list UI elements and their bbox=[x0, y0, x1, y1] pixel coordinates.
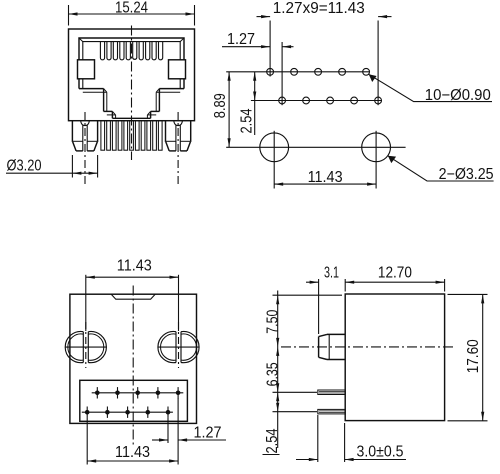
footprint: right big hole vertical centerline bbox=[375, 131, 377, 189]
svg-text:12.70: 12.70 bbox=[378, 265, 412, 282]
footprint: extension line through first bottom hole bbox=[281, 42, 283, 105]
svg-text:1.27x9=11.43: 1.27x9=11.43 bbox=[273, 0, 365, 17]
svg-text:1.27: 1.27 bbox=[227, 31, 255, 48]
dimension 7.50 text bbox=[265, 309, 282, 333]
dimension 15.24 text bbox=[115, 0, 148, 17]
dimension 3.1 extension lines bbox=[319, 279, 346, 334]
dimension 12.70 text bbox=[378, 265, 412, 282]
dimension 3.0+-0.5 extension lines bbox=[318, 415, 345, 462]
dimension 11.43 bottom extension line (bottom view) bbox=[86, 418, 88, 465]
front view: jack opening outer contour bbox=[79, 38, 184, 89]
dimension 1.27 text (bottom view) bbox=[194, 425, 222, 442]
front view: right mounting post bbox=[166, 121, 191, 151]
dimension diam 3.20 line bbox=[6, 172, 98, 175]
bottom view: right mounting post bbox=[158, 332, 199, 363]
front view: body outline bbox=[69, 29, 195, 121]
footprint: top row pin holes 10-d0.90 bbox=[267, 68, 370, 75]
dimension 17.60 extension lines bbox=[448, 294, 488, 420]
dimension 1.27 text (footprint) bbox=[227, 31, 255, 48]
footprint: top row centerline bbox=[226, 71, 369, 73]
dimension 15.24 extension lines bbox=[69, 5, 195, 26]
front view: left post centerline bbox=[84, 112, 86, 186]
side view chain dimension line 7.50 6.35 2.54 bbox=[276, 291, 279, 449]
dimension 1.27 extension lines (bottom view) bbox=[168, 398, 178, 465]
footprint: bottom row centerline bbox=[251, 100, 382, 102]
bottom view: top pin row line bbox=[92, 392, 184, 394]
dimension 1.27 line (bottom view) bbox=[152, 438, 226, 441]
footprint: left mounting hole 2-d3.25 bbox=[260, 133, 289, 162]
dimension 8.89 line bbox=[228, 72, 231, 148]
footprint: left big hole vertical centerline bbox=[273, 131, 275, 189]
side view: body outline bbox=[345, 294, 444, 421]
dimension 11.43 top text (bottom view) bbox=[117, 258, 152, 275]
front view: vertical centerline bbox=[131, 26, 133, 161]
bottom view: left post horizontal centerline bbox=[65, 346, 107, 348]
dimension 17.60 line bbox=[481, 294, 484, 420]
bottom view: body outline bbox=[70, 294, 197, 423]
dimension 11.43 top extension lines (bottom view) bbox=[86, 275, 179, 331]
svg-text:6.35: 6.35 bbox=[265, 362, 282, 386]
dimension 1.27x9=11.43 text bbox=[273, 0, 365, 17]
dimension 1.27 line (footprint) bbox=[222, 45, 294, 48]
dimension 12.70 extension line bbox=[444, 279, 446, 292]
dimension 2.54 line (footprint) bbox=[253, 72, 256, 135]
bottom view: bottom row pins bbox=[85, 407, 170, 418]
front view: jack opening inner contour bbox=[79, 38, 184, 89]
front view: contact pin comb bbox=[101, 121, 162, 151]
dimension 12.70 line bbox=[345, 281, 444, 284]
dimension 17.60 text bbox=[465, 339, 482, 373]
footprint: extension line through last bottom hole bbox=[377, 21, 379, 106]
dimension 2.54 text (footprint) bbox=[239, 108, 256, 133]
side view: mounting post profile bbox=[319, 334, 346, 359]
svg-text:11.43: 11.43 bbox=[308, 169, 343, 186]
front view: right latch window bbox=[169, 60, 186, 79]
dimension 11.43 top line (bottom view) bbox=[86, 276, 179, 279]
dimension 15.24 line bbox=[69, 12, 195, 15]
svg-text:10−Ø0.90: 10−Ø0.90 bbox=[425, 87, 491, 104]
dimension diam 3.20 text bbox=[7, 157, 42, 174]
svg-text:1.27: 1.27 bbox=[194, 425, 222, 442]
svg-text:2.54: 2.54 bbox=[264, 428, 281, 453]
footprint: right mounting hole 2-d3.25 bbox=[362, 133, 391, 162]
svg-text:15.24: 15.24 bbox=[115, 0, 148, 17]
svg-text:3.1: 3.1 bbox=[324, 265, 339, 282]
svg-text:17.60: 17.60 bbox=[465, 339, 482, 373]
dimension 3.1 text bbox=[324, 265, 339, 282]
dimension 1.27x9=11.43 line bbox=[257, 15, 392, 18]
bottom view: bottom pin row line bbox=[82, 411, 173, 413]
dimension diam 3.20 extension lines bbox=[72, 155, 97, 178]
side view: lower solder pin bbox=[318, 409, 345, 414]
footprint: extension line through first top hole bbox=[269, 21, 271, 77]
dimension 11.43 line (footprint) bbox=[274, 183, 376, 186]
svg-text:2.54: 2.54 bbox=[239, 108, 256, 133]
svg-text:2−Ø3.25: 2−Ø3.25 bbox=[439, 166, 494, 183]
side view chain dimension extension lines bbox=[273, 295, 343, 412]
svg-text:11.43: 11.43 bbox=[115, 444, 150, 461]
leader 10-d0.90 bbox=[369, 74, 492, 101]
bottom view: main vertical centerline bbox=[132, 286, 134, 448]
front view: left latch window bbox=[78, 60, 95, 79]
bottom view: right post horizontal centerline bbox=[158, 346, 200, 348]
label 2-d3.25 text bbox=[439, 166, 494, 183]
bottom view: right post vertical centerline bbox=[178, 322, 180, 368]
dimension 3.1 line bbox=[306, 281, 319, 284]
front view: contact comb slots bbox=[100, 42, 162, 60]
svg-text:11.43: 11.43 bbox=[117, 258, 152, 275]
svg-text:Ø3.20: Ø3.20 bbox=[7, 157, 42, 174]
front view: opening floor bbox=[112, 117, 150, 119]
front view: stepped opening bottom left bbox=[79, 89, 116, 119]
svg-text:7.50: 7.50 bbox=[265, 309, 282, 333]
front view: left mounting post bbox=[72, 121, 97, 151]
leader 2-d3.25 bbox=[388, 156, 494, 181]
bottom view: left mounting post bbox=[65, 332, 106, 363]
label 10-d0.90 text bbox=[425, 87, 491, 104]
footprint: bottom row pin holes bbox=[279, 97, 382, 104]
side view: horizontal centerline bbox=[281, 346, 455, 348]
dimension 11.43 bottom line (bottom view) bbox=[87, 459, 178, 462]
front view: stepped opening bottom right bbox=[147, 89, 184, 119]
bottom view: left post vertical centerline bbox=[85, 322, 87, 368]
dimension 3.0+-0.5 line bbox=[296, 458, 406, 461]
dimension 8.89 text bbox=[212, 93, 229, 118]
dimension 2.54 text (side view) bbox=[263, 428, 282, 454]
bottom view: top row pins bbox=[95, 387, 180, 398]
bottom view: pin field rectangle bbox=[80, 380, 188, 421]
dimension 6.35 text bbox=[265, 362, 282, 386]
svg-text:3.0±0.5: 3.0±0.5 bbox=[357, 444, 404, 461]
dimension 11.43 bottom text (bottom view) bbox=[115, 444, 150, 461]
side view: upper solder pin bbox=[318, 390, 345, 395]
dimension 3.0+-0.5 text bbox=[357, 444, 404, 461]
svg-text:8.89: 8.89 bbox=[212, 93, 229, 118]
dimension 11.43 text (footprint) bbox=[308, 169, 343, 186]
front view: right post centerline bbox=[177, 112, 179, 186]
footprint: big holes centerline bbox=[226, 146, 405, 148]
bottom view: top edge recess bbox=[111, 294, 155, 299]
